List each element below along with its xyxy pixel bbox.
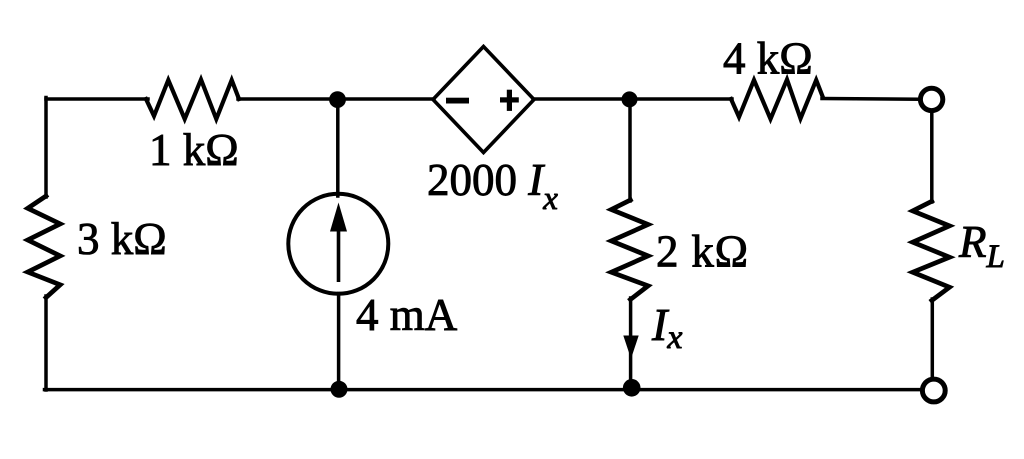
- resistor 3 kOhm zigzag: [28, 196, 61, 298]
- svg-text:RL: RL: [958, 217, 1005, 275]
- wire 2k to bottom node with Ix: [629, 298, 633, 385]
- wire left rail upper: [44, 98, 48, 198]
- svg-text:2 kΩ: 2 kΩ: [656, 227, 749, 277]
- wire RL to bottom terminal: [931, 299, 935, 377]
- wire top terminal down to RL: [930, 114, 934, 203]
- svg-text:1 kΩ: 1 kΩ: [149, 125, 239, 175]
- node dot top-right (node 2): [622, 91, 638, 107]
- svg-text:Ix: Ix: [651, 299, 682, 356]
- node dot bottom under current source: [331, 381, 348, 398]
- wire node1 to diamond: [238, 97, 434, 101]
- open terminal bottom right: [922, 379, 945, 402]
- current source up arrow: [330, 203, 347, 283]
- wire top-left segment: [46, 97, 148, 101]
- Ix down arrowhead: [623, 336, 638, 359]
- resistor RL zigzag: [913, 201, 950, 300]
- plus sign inside diamond: [500, 97, 519, 102]
- minus sign inside diamond: [446, 98, 469, 104]
- node dot bottom under 2k: [623, 379, 641, 397]
- svg-text:4 mA: 4 mA: [356, 290, 458, 340]
- wire diamond to node2: [533, 97, 732, 101]
- svg-text:4 kΩ: 4 kΩ: [723, 34, 813, 84]
- wire left rail lower: [44, 296, 48, 390]
- node dot top-left (node 1): [329, 91, 346, 108]
- wire 4k to top terminal: [822, 97, 919, 101]
- svg-text:3 kΩ: 3 kΩ: [77, 214, 167, 264]
- resistor 1 kOhm zigzag: [146, 80, 239, 120]
- open terminal top right: [920, 88, 942, 110]
- current source circle 4 mA: [288, 194, 388, 294]
- wire current source to bottom node: [337, 294, 341, 390]
- wire node1 down to current source: [336, 100, 340, 196]
- svg-text:2000 Ix: 2000 Ix: [427, 155, 558, 217]
- resistor 2 kOhm zigzag: [611, 200, 648, 300]
- resistor 4 kOhm zigzag: [731, 80, 823, 120]
- dependent source diamond 2000 Ix: [433, 47, 534, 153]
- wire bottom rail: [45, 388, 921, 392]
- wire node2 down to 2k: [628, 100, 632, 201]
